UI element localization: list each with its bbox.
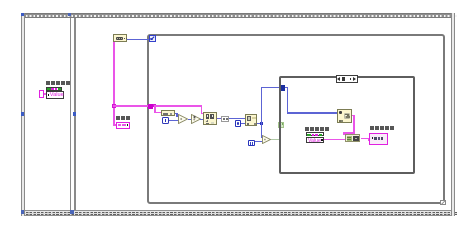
concatenate node bbox=[345, 134, 361, 142]
wire: pink horizontal into loop tunnel bbox=[113, 105, 148, 107]
label 发送字符串 (terminal) bbox=[370, 126, 394, 130]
reference link stub bbox=[44, 93, 46, 95]
wait node bbox=[245, 114, 258, 126]
wire concat -> terminal (pink) bbox=[361, 138, 370, 139]
wire: [i] to triangle1 bbox=[169, 120, 178, 121]
loop corner grip bbox=[440, 200, 446, 206]
junction dot after tunnel bbox=[153, 104, 156, 107]
label 发送字符串 (frame 1 property node) bbox=[46, 81, 70, 85]
label 发送字符串 (case property node) bbox=[305, 127, 329, 131]
flat sequence structure: top filmstrip band bbox=[21, 13, 456, 19]
numeric constant 0 bbox=[235, 120, 240, 127]
wire substring out (pink, jog) bbox=[352, 115, 355, 117]
case selector label bbox=[336, 75, 359, 82]
flat sequence structure: right border (double line) bbox=[451, 13, 455, 216]
wire: pink vertical from string length down to 字符串 terminal bbox=[113, 42, 115, 125]
case selector terminal (green) bbox=[278, 122, 283, 128]
comparison triangle bbox=[262, 135, 271, 144]
string reference box (pink) bbox=[39, 90, 44, 98]
wire wait -> junction bbox=[257, 123, 261, 124]
wire index array -> converter bbox=[217, 118, 221, 119]
triangle function 1 bbox=[178, 114, 188, 124]
index array node bbox=[203, 112, 217, 125]
wire triangle1 -> triangle2 bbox=[188, 119, 191, 120]
junction dot pink bbox=[112, 104, 115, 107]
property node 发送字符串 Value box bbox=[46, 91, 64, 99]
flat sequence structure: left border (double line) bbox=[21, 13, 25, 216]
wire: pink branch down to byte-array node bbox=[154, 105, 156, 112]
case structure border bbox=[279, 76, 415, 174]
wire junction down to comparison bbox=[261, 123, 262, 138]
shift register square (blue) on loop corner bbox=[149, 35, 157, 43]
wire converter -> wait node bbox=[229, 118, 245, 119]
substring node bbox=[337, 109, 352, 122]
selection handle bottom-left bbox=[21, 210, 24, 213]
wire horizontal to case tunnel bbox=[261, 87, 281, 88]
wire triangle2 -> index array bbox=[200, 119, 203, 120]
selection handle mid-divider bbox=[73, 112, 76, 116]
wire 35 -> comparison bbox=[255, 141, 263, 142]
wire: byte-array out to triangle1 bbox=[175, 113, 178, 114]
property node 发送字符串 (case) Value box bbox=[306, 137, 324, 143]
flat sequence frame divider (two lines) bbox=[70, 18, 71, 210]
wire comparison -> selector (green) bbox=[271, 139, 280, 140]
converter node (two circles) bbox=[221, 116, 229, 122]
selection handle mid-left bbox=[21, 112, 24, 116]
flat sequence structure: bottom filmstrip band bbox=[21, 210, 456, 216]
string length node U1 bbox=[113, 34, 127, 42]
property node 发送字符串 (case) icon strip bbox=[306, 132, 324, 136]
iteration terminal [i] bbox=[162, 117, 169, 124]
string-to-byte-array node bbox=[161, 110, 175, 116]
label 字符串 bbox=[116, 116, 130, 120]
wire inside case from tunnel bbox=[285, 87, 288, 88]
wire: string length to shift register (blue) bbox=[127, 39, 149, 40]
selection handle bottom-divider bbox=[70, 210, 73, 213]
字符串 control terminal (pink) bbox=[116, 122, 130, 128]
junction dot blue bbox=[260, 122, 263, 125]
selection handle top-left bbox=[21, 13, 24, 16]
wire property -> concat (pink) bbox=[324, 139, 345, 141]
wire: pink from tunnel to index node (long horizontal) bbox=[153, 105, 202, 107]
wire: pink down into index-array node top bbox=[201, 105, 203, 113]
while loop border bbox=[147, 34, 445, 205]
wire 0 -> wait node bbox=[241, 123, 245, 124]
wire: pink stub to 字符串 terminal bbox=[113, 124, 116, 126]
numeric constant 35 bbox=[248, 140, 255, 147]
property node 发送字符串 icon strip bbox=[46, 87, 63, 91]
selection handle top-divider bbox=[68, 13, 71, 16]
发送字符串 indicator terminal (pink) bbox=[369, 133, 388, 145]
wire vertical up to case tunnel bbox=[261, 87, 262, 124]
triangle function 2 bbox=[191, 114, 201, 124]
loop tunnel (magenta) bbox=[148, 104, 153, 109]
case tunnel blue bbox=[280, 85, 285, 90]
